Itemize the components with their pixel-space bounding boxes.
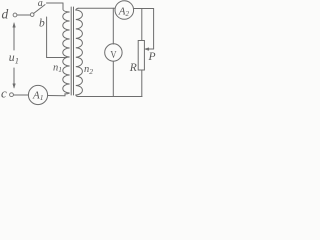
wire V bottom to bottom rail bbox=[112, 61, 114, 96]
svg-text:n1: n1 bbox=[53, 62, 62, 74]
wiper arrow P bbox=[148, 48, 154, 50]
svg-text:n2: n2 bbox=[84, 64, 93, 76]
svg-text:c: c bbox=[1, 85, 7, 100]
wiper wire down bbox=[153, 9, 155, 50]
svg-text:d: d bbox=[2, 7, 9, 22]
transformer secondary coil n2 bbox=[76, 8, 83, 96]
svg-text:P: P bbox=[148, 51, 156, 63]
wire down to rheostat top bbox=[141, 9, 143, 41]
voltmeter V circle bbox=[105, 44, 122, 61]
switch pivot circle bbox=[30, 13, 34, 17]
wire rheostat bottom to bottom rail bbox=[141, 70, 143, 96]
transformer primary coil n1 bbox=[63, 3, 70, 96]
terminal c circle bbox=[10, 93, 14, 97]
svg-text:A2: A2 bbox=[118, 5, 130, 17]
wire b to primary tap bbox=[47, 17, 67, 58]
svg-text:b: b bbox=[39, 18, 45, 30]
svg-text:a: a bbox=[38, 0, 43, 9]
transformer core bbox=[70, 7, 72, 95]
wire a to transformer primary top bbox=[47, 2, 64, 4]
node T voltmeter top junction bbox=[112, 8, 114, 44]
svg-text:R: R bbox=[129, 62, 137, 74]
u1 arrow down bbox=[13, 68, 15, 85]
wire d to switch pivot bbox=[17, 14, 30, 16]
wire A2 to right verticals bbox=[134, 8, 154, 10]
svg-text:u1: u1 bbox=[9, 50, 19, 66]
wire A1 to primary coil bottom bbox=[48, 95, 65, 97]
ammeter A2 circle bbox=[115, 1, 134, 20]
wire c to ammeter A1 bbox=[14, 94, 29, 96]
svg-text:A1: A1 bbox=[32, 90, 43, 103]
switch blade to contact a bbox=[34, 5, 45, 14]
rheostat R box bbox=[138, 41, 144, 71]
u1 arrow up bbox=[13, 26, 15, 50]
terminal d circle bbox=[13, 13, 17, 17]
svg-text:V: V bbox=[110, 49, 116, 61]
secondary top wire bbox=[78, 7, 115, 9]
secondary bottom wire bbox=[78, 96, 142, 98]
ammeter A1 circle bbox=[28, 85, 47, 104]
